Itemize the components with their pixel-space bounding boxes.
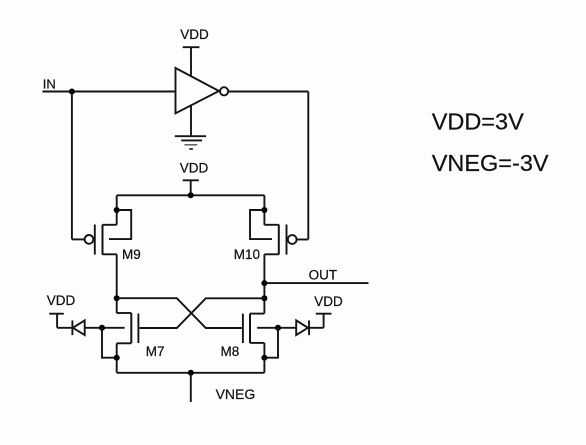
diode D2 (right clamp) — [278, 320, 309, 335]
wire right clamp to M8 source — [264, 328, 278, 358]
diode D1 (left clamp) — [72, 320, 102, 335]
node OUT label — [309, 267, 338, 282]
junction M10 source/bulk — [261, 207, 267, 213]
svg-text:VDD: VDD — [180, 27, 209, 42]
node annotation VNEG=-3V — [432, 150, 549, 176]
svg-text:IN: IN — [43, 76, 56, 91]
node M9 label — [122, 247, 141, 262]
junction M8 source bottom — [261, 355, 267, 361]
svg-text:VNEG=-3V: VNEG=-3V — [432, 150, 549, 176]
node M7 label — [146, 344, 165, 359]
wire M9 drain down — [116, 254, 118, 313]
node VDD (inverter supply) — [180, 27, 209, 42]
node VDD (latch supply) — [180, 160, 209, 175]
junction M10 drain cross node — [261, 295, 267, 301]
junction OUT — [261, 280, 267, 286]
svg-text:OUT: OUT — [309, 267, 338, 282]
inverter output bubble — [220, 87, 228, 95]
transistor M8 (NMOS) — [243, 314, 278, 358]
svg-text:M10: M10 — [234, 247, 260, 262]
op-amp U1 inverter triangle — [176, 68, 220, 113]
svg-text:M8: M8 — [221, 344, 240, 359]
wire top rail — [117, 194, 265, 196]
power VDD bar (inverter) — [183, 47, 200, 76]
junction left clamp node — [99, 325, 105, 331]
wire left clamp to M7 source — [102, 328, 117, 358]
wire IN to inverter input — [42, 91, 175, 93]
wire rail to M10 source — [263, 195, 265, 225]
junction right clamp node — [275, 325, 281, 331]
junction IN node — [69, 89, 75, 95]
wire inverter output — [228, 91, 308, 93]
svg-text:M9: M9 — [122, 247, 141, 262]
junction VNEG — [188, 370, 194, 376]
junction M7 source bottom — [114, 355, 120, 361]
power VDD bar (latch) — [183, 180, 199, 195]
wire rail to M9 source — [116, 195, 118, 225]
svg-text:VDD: VDD — [314, 294, 343, 309]
node VDD (right clamp) — [314, 294, 343, 309]
node VNEG label — [216, 386, 256, 402]
transistor M9 (PMOS) — [72, 210, 131, 255]
node M8 label — [221, 344, 240, 359]
junction M9 source/bulk — [114, 207, 120, 213]
svg-text:VNEG: VNEG — [216, 386, 256, 402]
wire OUT — [264, 282, 368, 284]
wire left feedback vertical — [71, 92, 73, 240]
node annotation VDD=3V — [432, 109, 524, 135]
power VDD bar (left clamp) — [49, 314, 72, 328]
transistor M10 (PMOS) — [250, 210, 308, 255]
wire VNEG stub — [190, 373, 192, 402]
wire right feedback vertical — [307, 92, 309, 240]
svg-text:VDD: VDD — [47, 293, 76, 308]
ground — [175, 136, 206, 149]
svg-text:VDD: VDD — [180, 160, 209, 175]
node IN — [43, 76, 56, 91]
wire cross-couple left to M8 gate — [117, 298, 242, 328]
svg-text:M7: M7 — [146, 344, 165, 359]
transistor M7 (NMOS) — [102, 313, 138, 358]
wire cross-couple right to M7 gate — [139, 298, 264, 328]
node M10 label — [234, 247, 260, 262]
junction M9 drain cross node — [114, 295, 120, 301]
wire M10 drain down — [263, 254, 265, 313]
power VDD bar (right clamp) — [309, 314, 332, 328]
node VDD (left clamp) — [47, 293, 76, 308]
junction VDD rail center — [188, 192, 194, 198]
svg-text:VDD=3V: VDD=3V — [432, 109, 524, 135]
wire bottom rail — [117, 358, 265, 373]
wire inverter to ground — [190, 105, 192, 136]
